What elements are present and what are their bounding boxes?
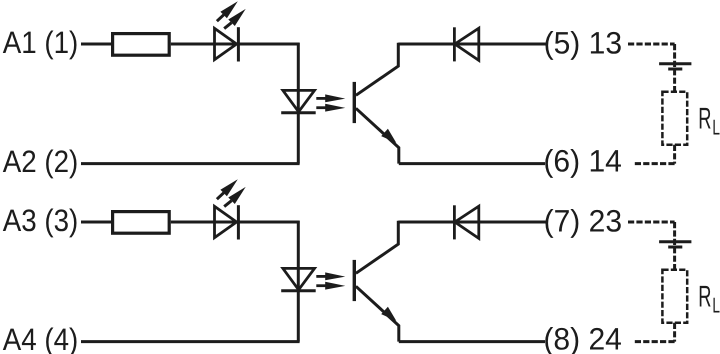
svg-text:(6) 14: (6) 14: [543, 143, 622, 178]
svg-text:A1 (1): A1 (1): [3, 25, 79, 60]
svg-text:L: L: [712, 115, 720, 139]
svg-text:R: R: [698, 103, 711, 136]
svg-text:A3 (3): A3 (3): [3, 203, 79, 238]
svg-text:(5) 13: (5) 13: [544, 25, 623, 60]
svg-text:R: R: [698, 281, 711, 314]
svg-text:(7) 23: (7) 23: [544, 203, 623, 238]
svg-text:A2 (2): A2 (2): [3, 144, 79, 179]
svg-text:A4 (4): A4 (4): [3, 322, 79, 354]
svg-text:(8) 24: (8) 24: [543, 321, 622, 354]
svg-text:L: L: [712, 293, 720, 317]
